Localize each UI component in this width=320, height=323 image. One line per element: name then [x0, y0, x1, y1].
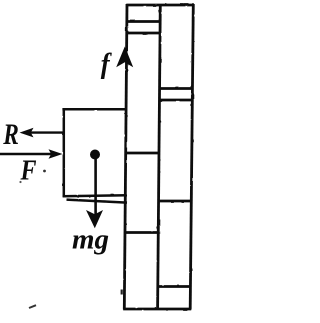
- svg-text:F: F: [20, 156, 37, 187]
- svg-text:R: R: [2, 117, 18, 150]
- svg-text:mg: mg: [72, 224, 109, 255]
- svg-text:f: f: [101, 48, 112, 80]
